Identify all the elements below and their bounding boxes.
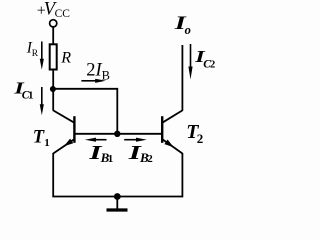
svg-text:R: R — [32, 49, 39, 59]
svg-text:2I: 2I — [86, 60, 102, 80]
svg-text:1: 1 — [28, 90, 34, 102]
svg-text:o: o — [185, 23, 191, 37]
svg-text:CC: CC — [55, 8, 71, 20]
svg-text:1: 1 — [108, 153, 114, 165]
svg-text:2: 2 — [210, 60, 215, 71]
svg-text:2: 2 — [197, 131, 204, 146]
svg-text:T: T — [33, 128, 45, 148]
svg-text:R: R — [60, 50, 71, 67]
svg-text:B: B — [102, 68, 110, 82]
svg-text:1: 1 — [44, 137, 50, 149]
svg-text:2: 2 — [147, 153, 153, 165]
